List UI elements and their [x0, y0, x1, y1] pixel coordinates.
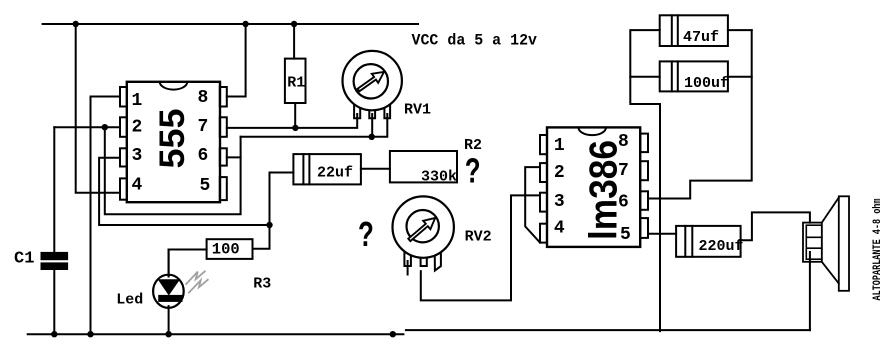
wire pin2 to pin6 loop	[105, 127, 241, 214]
RV1 leg right	[384, 100, 390, 118]
wire 555 pin6 stub	[227, 156, 241, 158]
svg-text:ALTOPARLANTE 4-8 ohm: ALTOPARLANTE 4-8 ohm	[872, 198, 884, 300]
resistor R1	[293, 24, 295, 59]
pin 1 of 555	[120, 87, 127, 107]
IC U1 555 timer body	[127, 82, 220, 202]
pin 8 of 555	[220, 87, 227, 107]
node ground-pin1	[87, 331, 93, 337]
wire RV2 wiper to lm386 pin3	[421, 195, 540, 300]
wire VCC to 555 pin 4	[76, 24, 120, 193]
node RV1 wiper junction	[369, 134, 375, 140]
wire 555 pin2 net (from C1 top)	[54, 126, 120, 128]
wire RV1 middle leg stub	[371, 114, 373, 137]
LED light rays	[186, 271, 208, 292]
LED D1	[168, 250, 170, 277]
node ground-C1	[51, 331, 57, 337]
pin 8 of lm386	[640, 134, 648, 153]
wire 555 pin1 to ground	[91, 97, 121, 335]
svg-text:1: 1	[132, 91, 143, 111]
svg-text:2: 2	[132, 118, 143, 138]
svg-text:RV1: RV1	[404, 101, 431, 118]
RV2 left leg stub	[407, 261, 409, 275]
wire speaker to ground	[809, 252, 811, 330]
svg-text:100: 100	[212, 241, 240, 259]
wire VCC top rail	[43, 23, 418, 25]
capacitor 100uf	[660, 61, 728, 91]
pin 5 of 555	[220, 177, 227, 200]
capacitor 220uf	[676, 226, 741, 257]
svg-text:R1: R1	[287, 74, 305, 91]
pin 7 of lm386	[640, 161, 648, 180]
svg-text:R3: R3	[253, 275, 271, 292]
wire lm386 pin2 to pin4	[525, 167, 540, 243]
svg-text:4: 4	[554, 219, 565, 239]
wire 555 pin7 to RV1	[227, 114, 357, 128]
wire caps left rail to ground	[630, 30, 660, 331]
pin 4 of lm386	[540, 224, 547, 243]
wire ground rail left	[28, 333, 404, 335]
node pin7-R1 junction	[292, 125, 298, 131]
notch of 555	[160, 82, 188, 90]
wire C2 to R2	[361, 168, 390, 170]
svg-text:3: 3	[554, 192, 565, 212]
wire 555 pin 8 to VCC	[227, 24, 246, 97]
pin 7 of 555	[220, 117, 227, 137]
capacitor 47uf	[660, 15, 728, 46]
wire lm386 pin6 to supply caps	[648, 30, 752, 198]
svg-text:22uf: 22uf	[317, 165, 353, 182]
node pin3-output junction	[266, 222, 272, 228]
IC U2 lm386 amplifier body	[547, 127, 640, 246]
capacitor C1	[53, 127, 55, 253]
pin 6 of 555	[220, 148, 227, 165]
svg-text:7: 7	[198, 117, 209, 137]
potentiometer RV1 body	[343, 51, 402, 110]
svg-text:100uf: 100uf	[684, 75, 729, 92]
node VCC-pin8 junction	[242, 21, 248, 27]
svg-text:5: 5	[200, 176, 211, 196]
pin 3 of 555	[120, 148, 127, 166]
node ground-LED	[165, 331, 171, 337]
svg-text:VCC da 5 a 12v: VCC da 5 a 12v	[412, 32, 538, 50]
svg-text:4: 4	[132, 175, 143, 195]
svg-text:47uf: 47uf	[683, 29, 719, 46]
svg-text:8: 8	[198, 88, 209, 108]
svg-text:?: ?	[358, 217, 374, 257]
pin 4 of 555	[120, 178, 127, 199]
wire RV1 wiper net	[241, 114, 388, 137]
resistor R3 100	[168, 250, 170, 277]
svg-text:RV2: RV2	[465, 228, 492, 245]
resistor R2 330k	[390, 151, 457, 182]
notch of lm386	[578, 127, 606, 135]
RV2 leg middle	[421, 250, 427, 266]
node VCC-R1 junction	[291, 21, 297, 27]
svg-text:6: 6	[198, 146, 209, 166]
svg-text:?: ?	[465, 154, 481, 194]
speaker LS1	[803, 196, 849, 290]
wire 100uf left stub	[630, 76, 659, 78]
node ground right dot	[390, 331, 396, 337]
wire 220uf to speaker	[741, 212, 810, 240]
RV2 leg right (bent)	[435, 249, 441, 271]
svg-text:R2: R2	[464, 137, 482, 154]
wire 555 pin3 output net	[99, 158, 269, 225]
svg-text:330k: 330k	[421, 169, 457, 186]
svg-text:2: 2	[554, 163, 565, 183]
svg-text:lm386: lm386	[583, 140, 626, 240]
svg-text:C1: C1	[14, 249, 34, 268]
wire 100uf right stub	[728, 76, 752, 78]
capacitor C2 22uf	[293, 154, 361, 184]
wire 47uf right stub	[728, 29, 752, 31]
wire output junction down to R3	[253, 225, 270, 249]
pin 6 of lm386	[640, 191, 648, 210]
pin 2 of 555	[120, 117, 127, 137]
RV2 wiper arrow	[408, 218, 435, 241]
potentiometer RV2 body	[393, 196, 454, 257]
pin 5 of lm386	[640, 218, 648, 238]
svg-text:220uf: 220uf	[699, 238, 744, 255]
pin 2 of lm386	[540, 163, 547, 182]
wire lm386 pin5 to 220uf	[648, 233, 676, 235]
svg-text:Led: Led	[116, 292, 143, 309]
RV1 leg left	[354, 100, 360, 118]
RV2 leg left	[404, 248, 411, 266]
svg-text:555: 555	[153, 109, 192, 169]
wire output junction up to C2 22uf	[270, 173, 294, 226]
wire ground rail right	[406, 329, 810, 331]
pin 1 of lm386	[540, 135, 547, 154]
pin 3 of lm386	[540, 193, 547, 212]
node VCC-pin4 junction	[73, 21, 79, 27]
RV1 wiper arrow	[358, 72, 384, 91]
RV1 leg middle	[369, 105, 375, 118]
svg-text:1: 1	[554, 136, 565, 156]
node pin2 junction	[102, 124, 108, 130]
svg-text:3: 3	[132, 146, 143, 166]
